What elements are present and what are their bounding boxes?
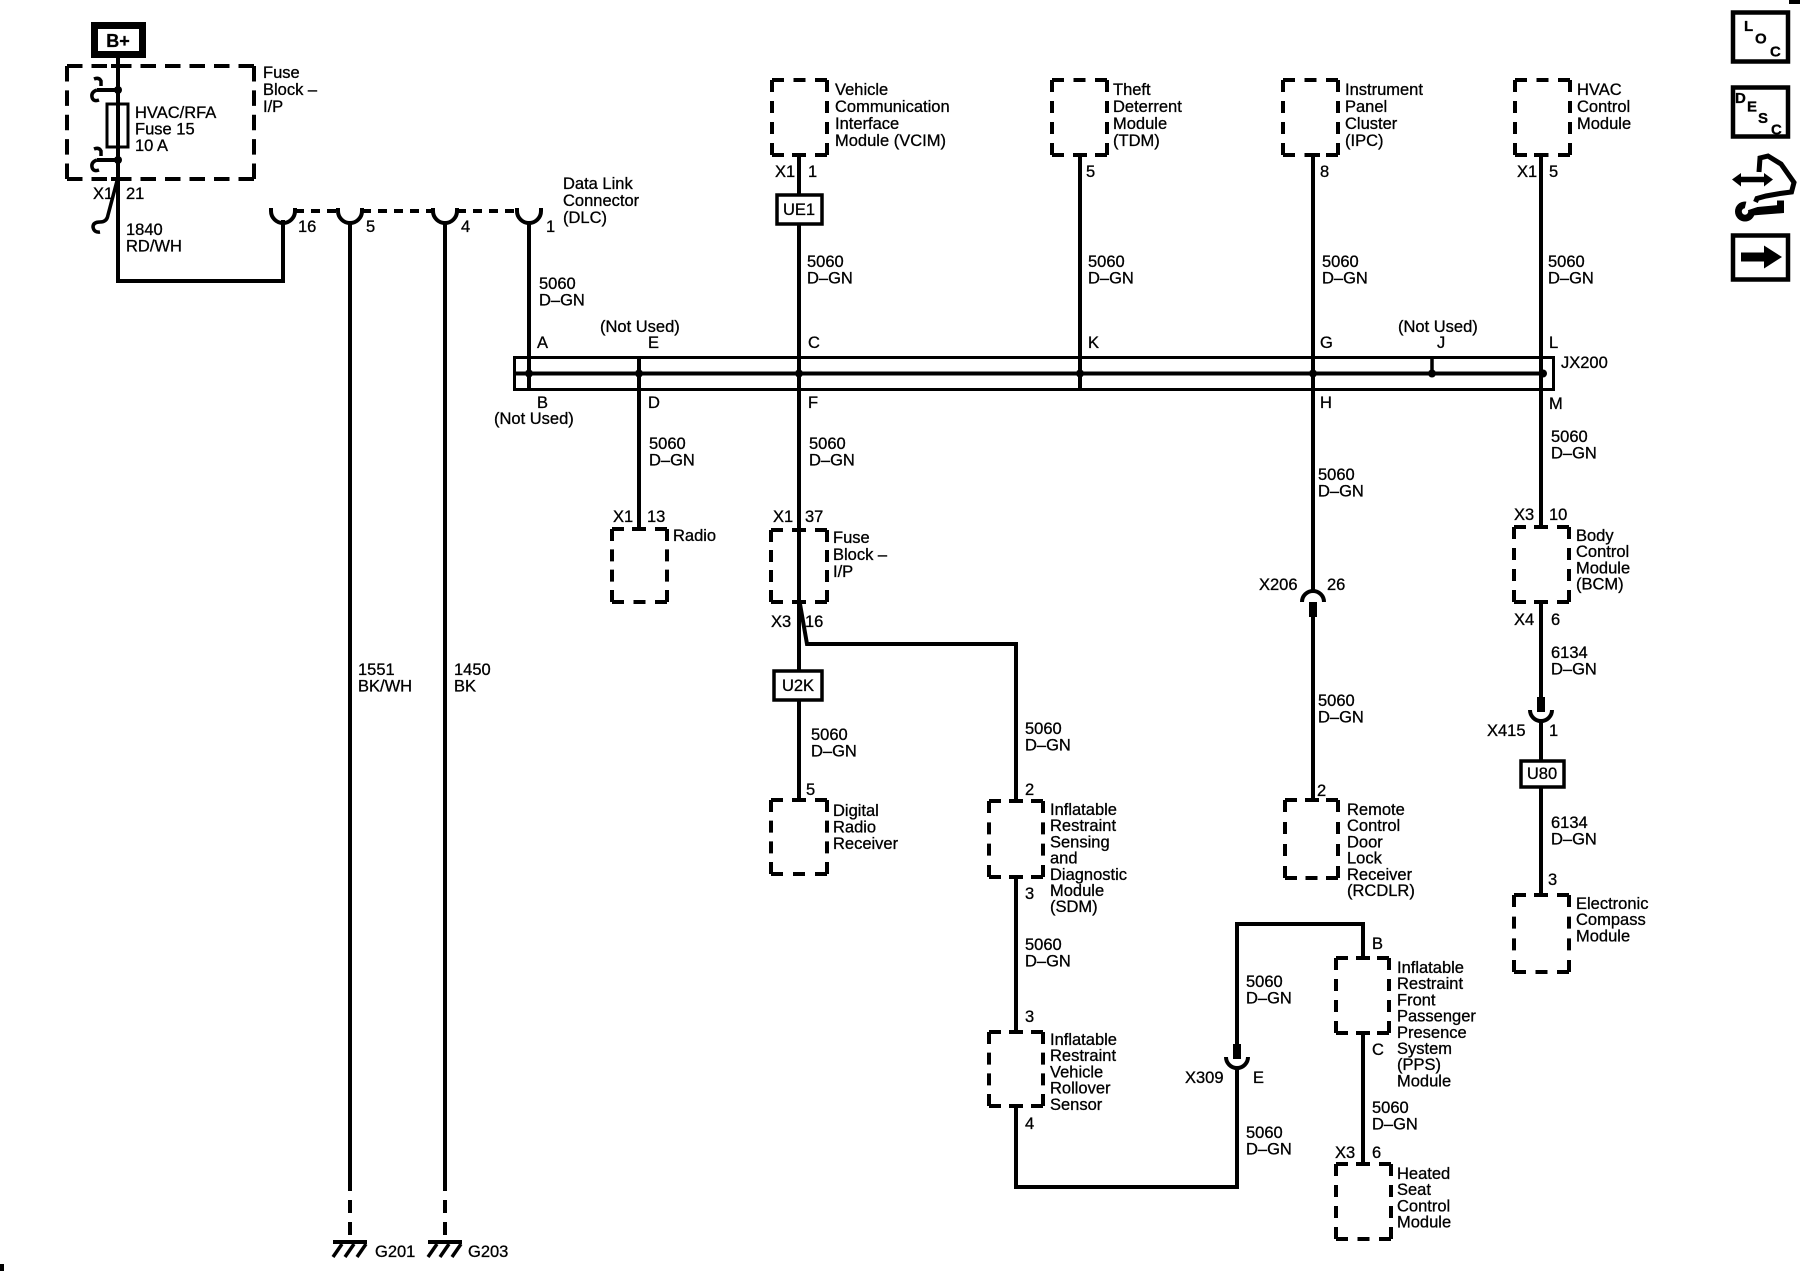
svg-text:1450: 1450	[454, 661, 491, 679]
svg-text:5060: 5060	[649, 435, 686, 453]
svg-text:13: 13	[647, 508, 665, 526]
svg-text:(TDM): (TDM)	[1113, 132, 1160, 150]
svg-text:3: 3	[1025, 885, 1034, 903]
svg-text:Module: Module	[1113, 115, 1167, 133]
svg-text:6134: 6134	[1551, 644, 1588, 662]
svg-text:5060: 5060	[1025, 720, 1062, 738]
svg-text:D–GN: D–GN	[809, 452, 855, 470]
module RCDLR dashed box	[1285, 798, 1338, 802]
wire fuse block to U2K	[797, 602, 801, 671]
svg-text:C: C	[808, 334, 820, 352]
svg-text:1551: 1551	[358, 661, 395, 679]
splice through wires	[637, 357, 641, 390]
svg-text:X3: X3	[771, 613, 791, 631]
svg-text:C: C	[1372, 1041, 1384, 1059]
svg-text:5060: 5060	[1372, 1099, 1409, 1117]
svg-text:D–GN: D–GN	[811, 743, 857, 761]
inline connector X309 pin E	[1233, 1044, 1241, 1059]
svg-text:5060: 5060	[1318, 692, 1355, 710]
fuse holder contact lower	[94, 148, 101, 156]
svg-text:5060: 5060	[1548, 253, 1585, 271]
splice junction at x=639	[635, 370, 643, 378]
svg-text:(Not Used): (Not Used)	[600, 318, 680, 336]
RPO code U80 box	[1521, 761, 1564, 787]
svg-text:D–GN: D–GN	[1548, 270, 1594, 288]
module radio dashed box	[612, 527, 667, 531]
svg-text:Module: Module	[1576, 927, 1630, 945]
svg-text:5060: 5060	[809, 435, 846, 453]
svg-text:6: 6	[1551, 611, 1560, 629]
svg-text:X206: X206	[1259, 576, 1298, 594]
wire splice M to BCM	[1539, 357, 1543, 527]
branch wire to SDM	[800, 604, 1016, 801]
svg-text:Deterrent: Deterrent	[1113, 98, 1182, 116]
svg-text:D–GN: D–GN	[1025, 953, 1071, 971]
svg-text:A: A	[537, 334, 548, 352]
svg-text:C: C	[1770, 44, 1781, 61]
svg-text:(Not Used): (Not Used)	[494, 410, 574, 428]
svg-text:37: 37	[805, 508, 823, 526]
svg-text:(IPC): (IPC)	[1345, 132, 1384, 150]
svg-text:JX200: JX200	[1561, 354, 1608, 372]
svg-text:L: L	[1549, 334, 1558, 352]
svg-text:C: C	[1771, 122, 1782, 139]
splice junction at x=1313	[1309, 370, 1317, 378]
wiring repair tools icon	[1732, 173, 1741, 187]
svg-text:Interface: Interface	[835, 115, 899, 133]
svg-text:5060: 5060	[807, 253, 844, 271]
svg-text:Theft: Theft	[1113, 81, 1151, 99]
svg-text:16: 16	[805, 613, 823, 631]
wire X415 to U80	[1539, 720, 1543, 761]
RPO code UE1 box	[777, 195, 822, 224]
svg-text:X3: X3	[1514, 506, 1534, 524]
svg-text:G201: G201	[375, 1243, 415, 1261]
data link connector DLC dashed link	[295, 209, 338, 213]
svg-text:J: J	[1437, 334, 1445, 352]
wire X309 to PPS branch	[1237, 924, 1363, 1045]
svg-text:5060: 5060	[1322, 253, 1359, 271]
svg-text:D–GN: D–GN	[539, 292, 585, 310]
svg-text:Fuse 15: Fuse 15	[135, 121, 195, 139]
svg-text:Block –: Block –	[263, 81, 318, 99]
splice pack JX200 body	[515, 358, 1554, 390]
splice junction at x=1543	[1539, 370, 1547, 378]
svg-text:8: 8	[1320, 163, 1329, 181]
svg-text:1840: 1840	[126, 221, 163, 239]
ground G201	[333, 1240, 367, 1244]
svg-text:UE1: UE1	[783, 201, 815, 219]
svg-text:Control: Control	[1577, 98, 1630, 116]
svg-text:X1: X1	[773, 508, 793, 526]
svg-text:26: 26	[1327, 576, 1345, 594]
module TDM dashed box	[1052, 78, 1107, 82]
svg-text:(DLC): (DLC)	[563, 209, 607, 227]
svg-text:U80: U80	[1527, 765, 1557, 783]
wire HVAC to splice L	[1539, 155, 1543, 390]
svg-text:(BCM): (BCM)	[1576, 576, 1624, 594]
wire DLC pin1 to splice A	[527, 223, 531, 390]
svg-text:S: S	[1758, 110, 1768, 127]
svg-text:HVAC: HVAC	[1577, 81, 1622, 99]
svg-text:Cluster: Cluster	[1345, 115, 1398, 133]
svg-text:16: 16	[298, 218, 316, 236]
svg-text:Communication: Communication	[835, 98, 950, 116]
DLC pin 4	[433, 208, 457, 223]
svg-text:5060: 5060	[1025, 936, 1062, 954]
svg-text:BK: BK	[454, 678, 476, 696]
wire PPS to heated seat module	[1361, 1033, 1365, 1164]
module PPS dashed box	[1336, 956, 1389, 960]
svg-text:D–GN: D–GN	[1318, 483, 1364, 501]
svg-text:6: 6	[1372, 1144, 1381, 1162]
svg-text:E: E	[1747, 99, 1757, 116]
ground G203	[428, 1240, 462, 1244]
module VCIM dashed box	[772, 78, 827, 82]
svg-text:X415: X415	[1487, 722, 1526, 740]
wire B+ to fuse	[116, 58, 120, 179]
svg-text:5060: 5060	[1318, 466, 1355, 484]
splice junction at x=529	[525, 370, 533, 378]
next page arrow icon	[1733, 236, 1788, 280]
page corner tick	[1789, 0, 1800, 4]
page speck	[0, 1264, 4, 1271]
svg-text:Vehicle: Vehicle	[835, 81, 888, 99]
fuse block I/P lower dashed box	[771, 528, 827, 532]
svg-text:2: 2	[1317, 782, 1326, 800]
wire BCM to X415	[1539, 602, 1543, 697]
svg-text:G: G	[1320, 334, 1333, 352]
fuse block I/P dashed box	[67, 64, 254, 68]
svg-text:Module (VCIM): Module (VCIM)	[835, 132, 946, 150]
svg-text:L: L	[1744, 18, 1753, 35]
svg-text:O: O	[1755, 31, 1767, 48]
svg-text:X1: X1	[775, 163, 795, 181]
svg-text:D–GN: D–GN	[1088, 270, 1134, 288]
module SDM dashed box	[989, 799, 1043, 803]
svg-text:4: 4	[461, 218, 470, 236]
svg-text:Panel: Panel	[1345, 98, 1387, 116]
wire splice D to radio	[637, 357, 641, 529]
svg-text:5060: 5060	[1246, 973, 1283, 991]
DLC pin 1	[517, 208, 541, 223]
svg-text:5060: 5060	[539, 275, 576, 293]
svg-text:E: E	[1253, 1069, 1264, 1087]
svg-text:Block –: Block –	[833, 546, 888, 564]
DESC navigation icon	[1733, 88, 1788, 137]
svg-text:D–GN: D–GN	[1322, 270, 1368, 288]
svg-text:D–GN: D–GN	[1372, 1116, 1418, 1134]
svg-text:D–GN: D–GN	[1246, 1141, 1292, 1159]
svg-text:5: 5	[366, 218, 375, 236]
wire rollover sensor to X309	[1016, 1067, 1237, 1187]
splice junction at x=1432	[1428, 370, 1436, 378]
svg-text:5060: 5060	[1551, 428, 1588, 446]
DLC pin 5	[338, 208, 362, 223]
svg-text:1: 1	[1549, 722, 1558, 740]
svg-text:G203: G203	[468, 1243, 508, 1261]
fuse HVAC/RFA 15 10A	[107, 104, 128, 147]
svg-text:5060: 5060	[1088, 253, 1125, 271]
svg-text:F: F	[808, 394, 818, 412]
svg-text:Module: Module	[1577, 115, 1631, 133]
module digital radio receiver dashed box	[771, 798, 827, 802]
inline connector X415 pin 1	[1537, 697, 1545, 712]
svg-text:BK/WH: BK/WH	[358, 678, 412, 696]
svg-text:Connector: Connector	[563, 192, 640, 210]
svg-text:Module: Module	[1397, 1214, 1451, 1232]
svg-text:D–GN: D–GN	[649, 452, 695, 470]
svg-text:10 A: 10 A	[135, 137, 168, 155]
svg-text:2: 2	[1025, 781, 1034, 799]
wire X206 to RCDLR	[1311, 617, 1315, 800]
svg-text:I/P: I/P	[833, 563, 853, 581]
svg-text:1: 1	[546, 218, 555, 236]
svg-text:5: 5	[1086, 163, 1095, 181]
svg-text:U2K: U2K	[782, 677, 814, 695]
svg-text:6134: 6134	[1551, 814, 1588, 832]
svg-text:D: D	[1735, 90, 1746, 107]
svg-text:Digital: Digital	[833, 802, 879, 820]
svg-text:E: E	[648, 334, 659, 352]
module electronic compass dashed box	[1514, 893, 1569, 897]
svg-text:Radio: Radio	[673, 527, 716, 545]
svg-text:5060: 5060	[811, 726, 848, 744]
svg-text:B+: B+	[106, 31, 130, 51]
svg-text:D–GN: D–GN	[1551, 831, 1597, 849]
svg-text:D: D	[648, 394, 660, 412]
svg-text:D–GN: D–GN	[807, 270, 853, 288]
svg-text:X3: X3	[1335, 1144, 1355, 1162]
svg-text:Fuse: Fuse	[833, 529, 870, 547]
svg-text:Data Link: Data Link	[563, 175, 633, 193]
svg-text:(Not Used): (Not Used)	[1398, 318, 1478, 336]
LOC navigation icon	[1733, 13, 1788, 62]
svg-text:21: 21	[126, 185, 144, 203]
svg-text:X1: X1	[613, 508, 633, 526]
svg-text:H: H	[1320, 394, 1332, 412]
splice pack JX200 common bar	[516, 372, 1543, 376]
svg-text:X4: X4	[1514, 611, 1534, 629]
svg-text:M: M	[1549, 395, 1563, 413]
svg-text:10: 10	[1549, 506, 1567, 524]
wire 1840 RD/WH continuation curl	[93, 181, 117, 232]
svg-text:D–GN: D–GN	[1551, 661, 1597, 679]
module HVAC control dashed box	[1515, 78, 1570, 82]
svg-text:Radio: Radio	[833, 819, 876, 837]
wire 1840 RD/WH to DLC pin 16	[118, 179, 283, 281]
svg-text:Sensor: Sensor	[1050, 1096, 1103, 1114]
wire IPC to splice G	[1311, 155, 1315, 390]
svg-text:X309: X309	[1185, 1069, 1224, 1087]
svg-text:X1: X1	[1517, 163, 1537, 181]
module BCM dashed box	[1514, 525, 1569, 529]
svg-text:Receiver: Receiver	[833, 835, 899, 853]
DLC pin 16	[271, 208, 295, 223]
svg-text:RD/WH: RD/WH	[126, 238, 182, 256]
splice stub J not used	[1430, 357, 1434, 374]
splice junction at x=1080	[1076, 370, 1084, 378]
svg-text:K: K	[1088, 334, 1099, 352]
svg-text:B: B	[1372, 935, 1383, 953]
svg-text:Fuse: Fuse	[263, 64, 300, 82]
svg-text:I/P: I/P	[263, 98, 283, 116]
wire U80 to compass module	[1539, 787, 1543, 895]
wire UE1 to splice C and fuse block	[797, 224, 801, 530]
wire VCIM to UE1	[797, 155, 801, 195]
inline connector X206 pin 26	[1302, 591, 1324, 602]
svg-text:3: 3	[1548, 871, 1557, 889]
wire TDM to splice K	[1078, 155, 1082, 390]
svg-text:5060: 5060	[1246, 1124, 1283, 1142]
wire 1551 BK/WH	[348, 223, 352, 1178]
svg-text:D–GN: D–GN	[1551, 445, 1597, 463]
svg-text:5: 5	[806, 781, 815, 799]
svg-text:1: 1	[808, 163, 817, 181]
wire SDM to rollover sensor	[1014, 877, 1018, 1032]
svg-text:4: 4	[1025, 1115, 1034, 1133]
module rollover sensor dashed box	[989, 1030, 1043, 1034]
wire splice H to X206	[1311, 357, 1315, 591]
module heated seat control dashed box	[1336, 1162, 1391, 1166]
svg-text:(SDM): (SDM)	[1050, 898, 1098, 916]
svg-text:D–GN: D–GN	[1025, 737, 1071, 755]
B+ battery feed symbol	[91, 22, 146, 58]
svg-text:5: 5	[1549, 163, 1558, 181]
splice junction at x=799	[795, 370, 803, 378]
svg-text:(RCDLR): (RCDLR)	[1347, 882, 1415, 900]
svg-text:Instrument: Instrument	[1345, 81, 1423, 99]
fuse holder contact upper	[94, 78, 101, 86]
module IPC dashed box	[1283, 78, 1338, 82]
wire 1450 BK	[443, 223, 447, 1178]
svg-text:D–GN: D–GN	[1318, 709, 1364, 727]
wire U2K to digital radio receiver	[797, 700, 801, 800]
svg-text:Module: Module	[1397, 1072, 1451, 1090]
svg-text:HVAC/RFA: HVAC/RFA	[135, 104, 216, 122]
RPO code U2K box	[774, 671, 822, 700]
svg-text:3: 3	[1025, 1008, 1034, 1026]
svg-text:D–GN: D–GN	[1246, 990, 1292, 1008]
